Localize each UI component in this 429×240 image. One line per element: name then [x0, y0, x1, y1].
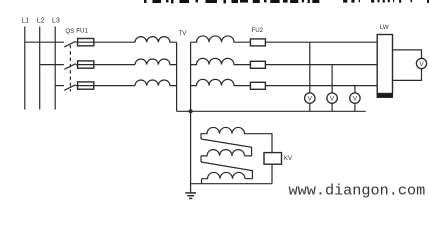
node L1 bus [24, 27, 26, 110]
ground symbol [185, 193, 196, 199]
wire L1 branch to QS pole 1 [25, 41, 64, 43]
wire series link a-b diagonal [201, 139, 252, 156]
wire open delta bottom return [191, 183, 272, 185]
fuse FU1 pole 2 [78, 61, 94, 68]
wire voltmeter PV1 tap [309, 42, 311, 111]
transformer TV secondary winding phase c [191, 79, 251, 85]
disconnector QS blade pole 1 [64, 41, 75, 47]
wire QS to fuse FU1 row 3 [76, 85, 135, 87]
node junction dot [189, 109, 193, 113]
svg-text:FU2: FU2 [251, 27, 263, 34]
svg-text:www.diangon.com: www.diangon.com [289, 182, 426, 200]
wire fuse FU2 to switch LW phase a [265, 41, 377, 43]
voltmeter PV2 [327, 93, 337, 103]
svg-text:TV: TV [178, 30, 187, 37]
relay KV coil box [264, 153, 282, 165]
switch LW box [377, 35, 392, 94]
disconnector QS blade pole 2 [64, 64, 75, 70]
transformer TV primary winding phase A [135, 37, 177, 43]
voltmeter PV1 [305, 93, 315, 103]
wire neutral common line [177, 110, 366, 112]
svg-text:KV: KV [284, 155, 293, 162]
disconnector QS blade pole 3 [64, 85, 75, 91]
voltmeter PV4 [416, 58, 426, 68]
wire series link b-c diagonal [201, 162, 252, 179]
wire L2 branch to QS pole 2 [40, 64, 64, 66]
wire voltmeter PV2 tap [331, 65, 333, 112]
transformer TV primary winding phase B [135, 59, 177, 65]
wire fuse FU2 to switch LW phase b [265, 64, 377, 66]
fuse FU2 phase c [250, 82, 265, 89]
wire KV to bottom return [271, 164, 273, 184]
svg-text:FU1: FU1 [76, 28, 88, 35]
svg-text:L3: L3 [52, 18, 60, 25]
fuse FU2 phase a [250, 39, 265, 46]
fuse FU2 phase b [250, 61, 265, 68]
transformer TV secondary neutral bus and earth lead [190, 42, 192, 192]
open delta winding c [202, 172, 253, 183]
voltmeter PV3 [350, 93, 360, 103]
transformer TV secondary winding phase b [191, 58, 251, 64]
open delta winding b [201, 150, 252, 162]
transformer TV primary winding phase C [135, 80, 177, 86]
wire fuse FU2 to switch LW phase c [265, 85, 377, 87]
wire voltmeter PV3 tap [354, 86, 356, 112]
svg-text:L1: L1 [21, 18, 29, 25]
switch LW bottom bar [377, 94, 393, 98]
svg-text:L2: L2 [37, 18, 45, 25]
wire L3 branch to QS pole 3 [55, 85, 64, 87]
svg-text:V: V [353, 96, 358, 103]
svg-text:QS: QS [65, 28, 74, 35]
node L2 bus [39, 27, 41, 110]
transformer TV secondary winding phase a [191, 36, 251, 42]
fuse FU1 pole 3 [78, 82, 94, 89]
wire LW to voltmeter PV4 loop [393, 50, 422, 81]
svg-text:V: V [330, 96, 335, 103]
node L3 bus [54, 27, 56, 110]
open delta winding a [201, 127, 272, 152]
svg-text:V: V [419, 61, 424, 68]
disconnector QS linkage dashed line [69, 45, 71, 92]
wire QS to fuse FU1 row 1 [76, 41, 135, 43]
wire QS to fuse FU1 row 2 [76, 64, 135, 66]
cut-off title text bottoms [144, 0, 429, 3]
svg-text:LW: LW [380, 24, 389, 31]
svg-text:V: V [308, 96, 313, 103]
fuse FU1 pole 1 [78, 39, 94, 46]
transformer TV primary neutral bus [176, 42, 178, 111]
